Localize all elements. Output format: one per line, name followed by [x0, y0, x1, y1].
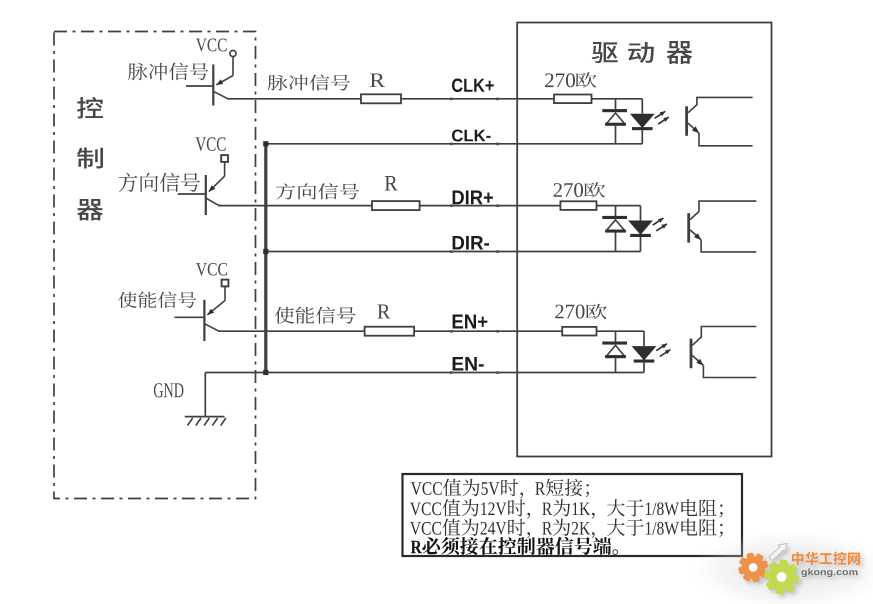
- diode reverse-protection (DIR): [602, 206, 627, 252]
- wire DIR+ from Q2 collector to R: [219, 205, 372, 207]
- phototransistor output (EN): [690, 327, 757, 378]
- LED light emission arrows (CLK): [655, 111, 669, 124]
- label 器 (controller): [77, 199, 103, 221]
- label EN-: [453, 357, 484, 371]
- junction DIR- / bus: [263, 249, 268, 254]
- note box outline: [403, 474, 743, 556]
- note line 4 (bold): [411, 537, 618, 555]
- label VCC (Q3): [196, 263, 227, 276]
- resistor R (CLK): [361, 94, 401, 103]
- label R (CLK): [370, 74, 385, 88]
- label pulse-signal left 脉冲信号: [128, 63, 208, 81]
- resistor 270ohm (CLK): [554, 95, 592, 104]
- label R (EN): [378, 305, 391, 319]
- label VCC (Q2): [196, 137, 226, 151]
- label R (DIR): [385, 176, 398, 191]
- transistor Q3 (enable signal PNP): [174, 280, 228, 341]
- label 控 (controller): [77, 97, 103, 119]
- label 270欧 (CLK): [545, 72, 597, 87]
- wire DIR+ inside driver: [597, 205, 641, 207]
- label pulse-signal right 脉冲信号: [268, 74, 350, 90]
- wire CLK+ from R to driver: [401, 98, 554, 100]
- label DIR+: [453, 191, 493, 205]
- driver outline (solid box): [517, 23, 771, 457]
- label CLK+: [452, 79, 494, 93]
- transistor Q1 (pulse signal PNP): [186, 50, 236, 105]
- label EN+: [453, 315, 488, 329]
- wire EN-: [205, 372, 644, 374]
- label VCC (Q1): [196, 39, 227, 52]
- controller outline (dashed box): [54, 32, 256, 499]
- label 270欧 (DIR): [554, 182, 606, 197]
- phototransistor output (DIR): [687, 201, 756, 252]
- label 器 (driver): [667, 41, 693, 64]
- LED light emission arrows (EN): [656, 344, 670, 357]
- resistor R (EN): [365, 327, 415, 336]
- wire EN+ inside driver: [597, 330, 645, 332]
- label DIR-: [453, 236, 489, 250]
- note line 3 VCC=24V: [410, 519, 723, 539]
- bus common negative: [264, 144, 267, 373]
- wire CLK-: [266, 143, 643, 145]
- wire connection ticks: [450, 98, 499, 374]
- wire DIR+ from R to driver: [420, 205, 561, 207]
- diode reverse-protection (CLK): [602, 99, 627, 144]
- LED light emission arrows (DIR): [653, 218, 667, 231]
- transistor Q2 (direction signal PNP): [178, 155, 228, 215]
- resistor 270ohm (EN): [562, 327, 596, 336]
- ground symbol: [185, 373, 226, 426]
- junction CLK- / bus: [263, 141, 268, 146]
- LED optocoupler input (CLK): [630, 99, 655, 144]
- resistor 270ohm (DIR): [560, 201, 596, 210]
- phototransistor output (CLK): [685, 97, 752, 145]
- label GND: [154, 383, 184, 397]
- label direction-signal right 方向信号: [276, 183, 359, 199]
- logo gkong (gears, arrow, 中华工控网 gkong.com): [690, 530, 873, 604]
- note line 1 VCC=5V: [411, 479, 589, 499]
- label 制 (controller): [77, 148, 103, 169]
- wire CLK+ inside driver: [592, 98, 643, 100]
- wire DIR-: [266, 251, 641, 253]
- label direction-signal left 方向信号: [119, 173, 201, 192]
- label 驱 (driver): [592, 42, 618, 63]
- LED optocoupler input (EN): [632, 331, 657, 372]
- label enable-signal right 使能信号: [275, 307, 356, 324]
- wire EN+ from Q3 collector to R: [219, 330, 365, 332]
- wire EN+ from R to driver: [414, 330, 562, 332]
- diode reverse-protection (EN): [602, 331, 627, 372]
- wire CLK+ from Q1 collector to R: [228, 98, 361, 100]
- label 动 (driver): [628, 42, 654, 63]
- junction EN- / bus: [263, 370, 268, 375]
- label CLK-: [452, 130, 491, 142]
- LED optocoupler input (DIR): [628, 206, 653, 252]
- note line 2 VCC=12V: [410, 499, 723, 519]
- label enable-signal left 使能信号: [118, 292, 196, 309]
- resistor R (DIR): [372, 201, 420, 210]
- label 270欧 (EN): [555, 304, 607, 320]
